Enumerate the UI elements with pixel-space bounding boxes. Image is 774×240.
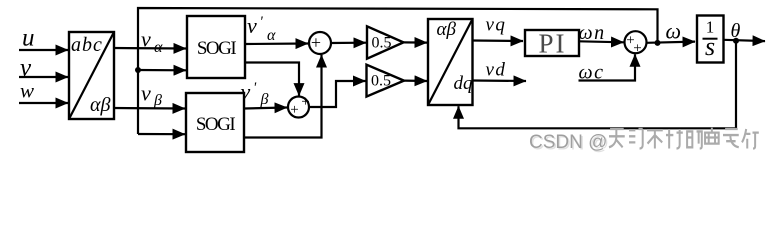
wire v'_alpha to adder1	[245, 42, 308, 45]
wire vq to PI	[473, 39, 524, 42]
wire theta output	[724, 40, 766, 41]
wire omega feedback top line	[138, 8, 658, 134]
block SOGI beta	[186, 93, 244, 152]
block alphabeta/dq transform	[428, 19, 473, 105]
svg-text:ω: ω	[666, 19, 682, 44]
svg-text:': '	[253, 80, 257, 96]
wire qv'_alpha to adder2	[245, 63, 299, 96]
adder2 summing junction	[288, 97, 309, 118]
watermark CJK glyph strokes	[609, 128, 759, 149]
wire adder1 to gain1	[331, 42, 366, 44]
svg-text:αβ: αβ	[90, 94, 110, 116]
wire v'_beta to adder2	[244, 108, 287, 109]
svg-text:v: v	[241, 79, 251, 104]
wire input w	[19, 102, 68, 104]
svg-text:0.5: 0.5	[371, 73, 391, 90]
wire omega to SOGI beta	[138, 133, 185, 135]
svg-text:α: α	[154, 39, 163, 56]
gain1 0.5 triangle	[367, 26, 404, 58]
svg-text:ωc: ωc	[579, 62, 605, 84]
block abc/alphabeta transform	[69, 32, 114, 119]
svg-text:+: +	[311, 33, 321, 53]
block integrator 1/s	[697, 16, 724, 63]
svg-text:s: s	[705, 32, 715, 61]
wire gain1 to dq block	[404, 41, 428, 43]
wire omega to SOGI alpha	[138, 69, 186, 72]
adder1 summing junction	[309, 32, 331, 54]
block PI controller	[525, 30, 579, 56]
wire omega_c to sum	[579, 54, 636, 80]
svg-text:vd: vd	[486, 60, 507, 81]
svg-text:αβ: αβ	[437, 19, 457, 40]
svg-text:v: v	[247, 13, 257, 38]
svg-text:+: +	[301, 94, 309, 110]
svg-text:0.5: 0.5	[372, 35, 392, 52]
wire omega to integrator	[647, 42, 696, 43]
svg-text:w: w	[20, 79, 34, 103]
svg-text:u: u	[22, 25, 35, 52]
svg-text:β: β	[260, 91, 269, 108]
node omega junction	[655, 40, 661, 46]
wire gain2 to dq block	[404, 79, 427, 82]
svg-text:CSDN @: CSDN @	[529, 132, 607, 153]
sum3 summing junction	[625, 31, 647, 53]
wire input u	[19, 49, 68, 51]
svg-text:v: v	[141, 27, 151, 52]
svg-text:PI: PI	[538, 29, 566, 59]
wire adder2 to gain2	[309, 81, 366, 107]
wire vd output	[473, 79, 527, 82]
node theta junction	[733, 38, 739, 44]
svg-text:v: v	[20, 55, 32, 82]
svg-text:α: α	[267, 27, 276, 44]
wire v_beta	[114, 107, 185, 110]
wire theta feedback to dq	[459, 41, 737, 129]
wire omega_n to sum	[579, 41, 624, 42]
svg-text:θ: θ	[731, 20, 741, 42]
wire qv'_beta to adder1	[244, 55, 322, 138]
svg-text:SOGI: SOGI	[197, 38, 237, 59]
svg-text:ωn: ωn	[579, 22, 606, 44]
svg-text:abc: abc	[71, 34, 103, 56]
wire input v	[19, 76, 68, 78]
svg-text:+: +	[633, 41, 641, 57]
svg-text:+: +	[290, 102, 298, 118]
gain2 0.5 triangle	[367, 65, 405, 97]
svg-text:v: v	[141, 81, 151, 106]
svg-text:dq: dq	[454, 73, 474, 94]
wire v_alpha	[114, 47, 186, 50]
svg-text:β: β	[153, 92, 162, 109]
svg-text:SOGI: SOGI	[196, 114, 236, 135]
svg-text:vq: vq	[486, 15, 507, 36]
block SOGI alpha	[187, 16, 245, 78]
node omega-SOGI junction	[135, 67, 141, 73]
svg-text:': '	[260, 14, 264, 30]
